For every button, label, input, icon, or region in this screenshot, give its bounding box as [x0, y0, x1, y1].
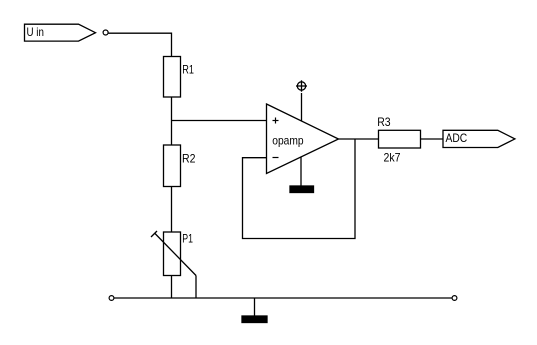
- svg-text:R2: R2: [182, 151, 196, 165]
- svg-text:R1: R1: [182, 62, 194, 76]
- svg-text:ADC: ADC: [446, 131, 468, 145]
- svg-text:U in: U in: [27, 25, 44, 39]
- svg-text:P1: P1: [182, 232, 193, 246]
- svg-text:2k7: 2k7: [384, 151, 401, 165]
- svg-text:opamp: opamp: [272, 134, 304, 148]
- svg-text:R3: R3: [377, 115, 391, 129]
